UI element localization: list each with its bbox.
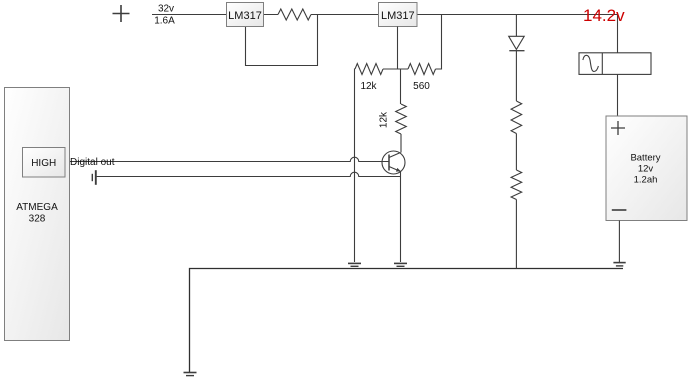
svg-text:Battery: Battery — [630, 153, 660, 164]
svg-text:14.2v: 14.2v — [583, 6, 625, 25]
svg-text:ATMEGA: ATMEGA — [16, 202, 58, 213]
svg-text:12v: 12v — [638, 164, 654, 175]
svg-text:560: 560 — [413, 81, 430, 92]
svg-text:32v: 32v — [158, 4, 174, 15]
svg-text:Digital out: Digital out — [70, 157, 115, 168]
svg-text:328: 328 — [29, 214, 46, 225]
svg-text:1.2ah: 1.2ah — [634, 175, 658, 186]
svg-text:12k: 12k — [360, 81, 377, 92]
svg-text:HIGH: HIGH — [31, 158, 56, 169]
svg-text:1.6A: 1.6A — [154, 16, 175, 27]
svg-text:12k: 12k — [379, 111, 390, 128]
svg-text:LM317: LM317 — [228, 10, 262, 22]
svg-text:LM317: LM317 — [381, 10, 415, 22]
